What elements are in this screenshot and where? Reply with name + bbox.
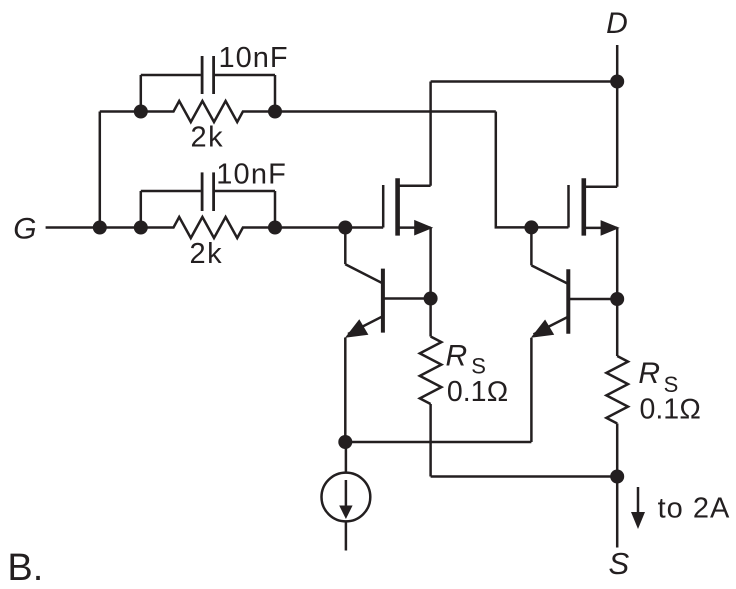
svg-text:0.1Ω: 0.1Ω — [640, 393, 702, 425]
svg-text:D: D — [606, 7, 628, 40]
svg-text:S: S — [471, 353, 486, 378]
svg-text:10nF: 10nF — [216, 158, 287, 190]
svg-text:2k: 2k — [191, 122, 225, 154]
svg-text:S: S — [664, 372, 679, 397]
svg-text:S: S — [609, 546, 630, 581]
svg-text:10nF: 10nF — [219, 42, 289, 74]
svg-text:0.1Ω: 0.1Ω — [447, 376, 509, 408]
svg-text:B.: B. — [7, 547, 43, 589]
svg-text:2k: 2k — [190, 238, 224, 270]
svg-text:to 2A: to 2A — [658, 493, 731, 525]
svg-text:R: R — [638, 357, 660, 390]
svg-text:G: G — [13, 212, 36, 245]
svg-text:R: R — [446, 339, 468, 372]
